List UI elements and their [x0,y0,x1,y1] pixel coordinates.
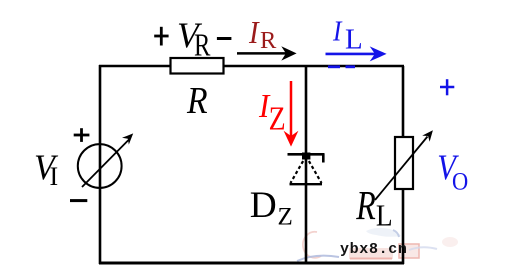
watermark smudge red arc left [303,232,321,258]
svg-text:O: O [452,167,468,196]
current arrow IL blue [326,46,387,61]
wire top [99,65,404,68]
source VI circle [78,144,122,188]
watermark smudge red stamp box right of wire [399,244,419,258]
watermark smudge blue stroke far right [409,247,437,250]
svg-text:R: R [186,79,208,122]
current arrow IR black [237,46,297,60]
blue dash artifact on top wire [328,65,355,68]
wire middle [305,66,308,264]
svg-text:ybx8.cn: ybx8.cn [340,241,408,258]
zener DZ triangle [290,156,323,184]
svg-text:R: R [355,182,375,228]
svg-text:R: R [260,27,277,54]
load resistor RL box [395,137,413,189]
watermark smudge blue wash near RL label [366,228,401,237]
label +VR- : plus sign [154,27,168,46]
source minus sign [70,199,87,202]
watermark smudge pink box under bx8 [349,248,393,259]
resistor R box [171,58,224,74]
zener junction dot [302,153,310,160]
svg-text:L: L [376,199,393,233]
svg-text:D: D [250,185,277,226]
wire bottom [99,262,404,265]
svg-text:I: I [50,162,59,191]
svg-text:Z: Z [278,204,293,231]
svg-text:I: I [248,15,260,51]
watermark smudge blue diagonal under yb [297,256,339,261]
wire left [99,65,102,264]
output plus sign blue [440,79,454,95]
source VI diagonal arrow [82,133,133,187]
wire right [402,66,405,264]
source plus sign [74,128,90,142]
svg-text:Z: Z [269,99,286,137]
watermark smudge red underline strokes [350,258,392,260]
svg-text:R: R [194,29,211,64]
current arrow IZ red [284,81,299,147]
watermark smudge blue tick right [393,230,399,237]
label +VR- : minus sign [217,37,232,40]
watermark smudge pink blob far right [442,237,458,247]
load resistor RL diagonal arrow [375,130,433,200]
zener DZ cathode bar [288,153,325,156]
svg-text:L: L [345,24,363,56]
zener DZ right bent tick [322,154,325,163]
